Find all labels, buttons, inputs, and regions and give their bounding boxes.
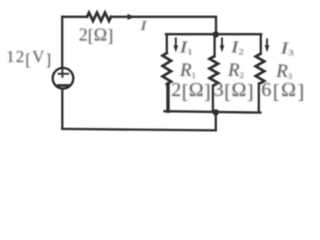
branch 1 wire lower	[166, 84, 169, 111]
resistor R3 zigzag	[256, 54, 265, 83]
branch 2 wire upper	[213, 36, 215, 57]
svg-text:2[Ω]: 2[Ω]	[79, 24, 113, 45]
wire left vertical from top to source	[61, 17, 63, 69]
svg-text:I: I	[139, 19, 147, 34]
svg-text:I3: I3	[280, 39, 294, 59]
current I arrow on top wire	[128, 14, 135, 20]
branch 3 wire upper	[260, 34, 262, 54]
top bus wire	[166, 33, 261, 35]
voltage source V1 circle	[53, 68, 74, 89]
current I3 arrow	[266, 39, 268, 47]
svg-text:2[Ω]: 2[Ω]	[171, 79, 211, 104]
svg-text:I2: I2	[230, 38, 244, 58]
voltage source plus sign	[59, 68, 69, 77]
svg-text:6[Ω]: 6[Ω]	[261, 79, 305, 104]
wire top-left horizontal	[62, 16, 87, 18]
current I2 arrow	[221, 38, 223, 47]
resistor R2 zigzag	[210, 57, 219, 86]
bottom bus wire	[165, 111, 261, 112]
resistor R1 zigzag	[163, 53, 172, 84]
voltage source minus bar	[58, 84, 69, 87]
branch 2 wire lower	[212, 86, 214, 112]
junction node top	[213, 31, 219, 37]
wire left vertical from source to bottom	[61, 89, 63, 129]
svg-text:I1: I1	[179, 38, 193, 58]
svg-text:3[Ω]: 3[Ω]	[214, 79, 254, 104]
branch 1 wire upper	[166, 34, 168, 53]
wire top horizontal to corner	[111, 17, 216, 34]
wire bottom horizontal	[62, 112, 216, 130]
junction node bottom	[213, 109, 219, 115]
svg-text:12[V]: 12[V]	[6, 47, 52, 69]
resistor 2-ohm series zigzag	[87, 13, 111, 21]
current I1 arrow	[175, 38, 177, 47]
branch 3 wire lower	[258, 83, 260, 112]
